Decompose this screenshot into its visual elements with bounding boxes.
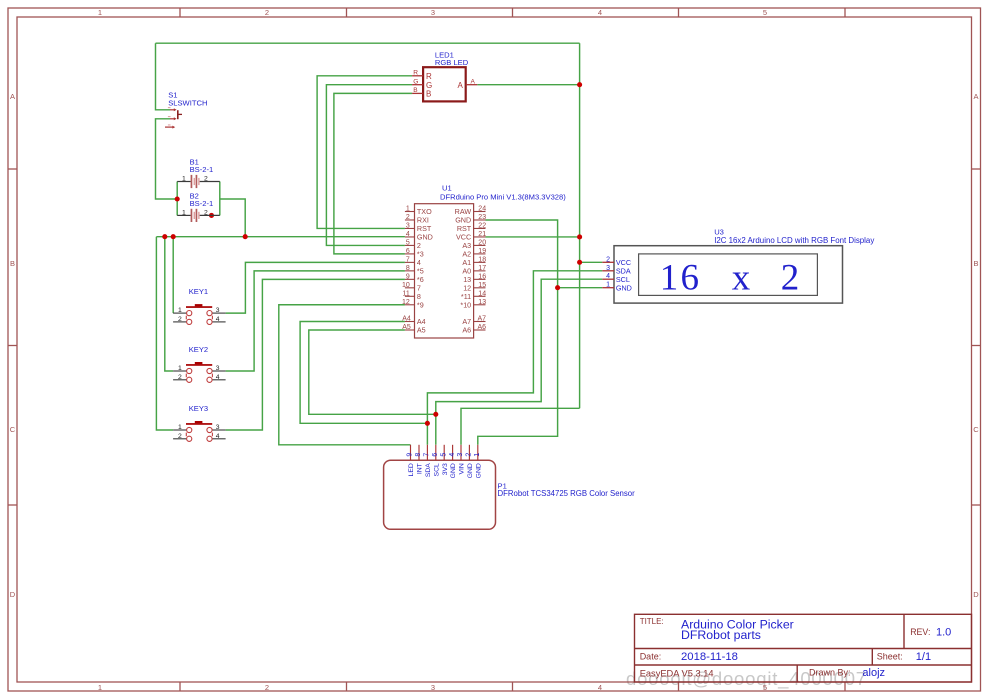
svg-text:21: 21 (478, 231, 486, 238)
wire LED R to U1 RST (317, 76, 412, 229)
battery B2 BS-2-1 (177, 191, 220, 222)
U1 pin 5 2 (405, 244, 415, 246)
LED1 RGB LED (412, 50, 477, 101)
svg-text:B: B (973, 259, 978, 268)
svg-text:9: 9 (406, 273, 410, 280)
svg-text:3: 3 (606, 265, 610, 272)
U1 pin 9 *6 (405, 278, 415, 280)
wire LED G to U1 pin5 (326, 85, 412, 246)
svg-text:A: A (457, 81, 463, 90)
LED1 pin G (412, 84, 423, 86)
svg-text:2: 2 (265, 683, 269, 692)
U1 pin 16 13 (474, 278, 486, 280)
P1 pin 5 3V3 (443, 445, 445, 460)
svg-text:A4: A4 (402, 316, 411, 323)
svg-text:6: 6 (406, 248, 410, 255)
svg-text:A5: A5 (402, 324, 411, 331)
sensor P1 DFRobot TCS34725 (384, 445, 636, 530)
svg-text:LED: LED (408, 463, 415, 476)
junction U1 VCC (577, 234, 582, 239)
junction LCD VCC (577, 260, 582, 265)
svg-text:*9: *9 (417, 300, 424, 309)
svg-text:3: 3 (216, 424, 220, 431)
svg-text:8: 8 (415, 453, 422, 457)
U1 pin 6 *3 (405, 253, 415, 255)
svg-text:2: 2 (178, 374, 182, 381)
pushbutton KEY2 (173, 345, 226, 383)
svg-text:1: 1 (182, 176, 186, 183)
svg-text:2: 2 (178, 433, 182, 440)
svg-text:INT: INT (417, 463, 424, 474)
junction bus battery (243, 234, 248, 239)
junction bus KEY2 (162, 234, 167, 239)
svg-text:B: B (10, 259, 15, 268)
svg-text:1: 1 (98, 683, 102, 692)
svg-text:D: D (973, 590, 979, 599)
P1 pin 1 GND (477, 445, 479, 460)
svg-text:3V3: 3V3 (442, 463, 449, 475)
pushbutton KEY3 (173, 404, 226, 442)
svg-text:4: 4 (406, 231, 410, 238)
svg-text:2: 2 (265, 8, 269, 17)
U1 pin 17 A0 (474, 270, 486, 272)
svg-text:6: 6 (432, 453, 439, 457)
wire KEY3 pin3 to U1 pin9 (226, 279, 405, 430)
svg-text:B: B (426, 90, 431, 99)
U1 pin 20 A3 (474, 244, 486, 246)
svg-text:BS-2-1: BS-2-1 (190, 165, 214, 174)
svg-text:4: 4 (216, 316, 220, 323)
wire S1 pin2 to battery (156, 119, 178, 199)
svg-text:SDA: SDA (425, 463, 432, 477)
LCD U3 I2C 16x2 (602, 228, 874, 304)
svg-text:A6: A6 (478, 324, 487, 331)
svg-text:4: 4 (598, 8, 602, 17)
svg-text:SCL: SCL (433, 463, 440, 476)
junction A4/SDA (425, 421, 430, 426)
wire battery to GND bus (220, 199, 245, 237)
svg-text:4: 4 (216, 433, 220, 440)
wire LED B to U1 pin6 (334, 93, 412, 254)
P1 pin 4 GND (452, 445, 454, 460)
junction LED A / VCC (577, 82, 582, 87)
U1 pin 10 7 (405, 287, 415, 289)
U1 pin 15 12 (474, 287, 486, 289)
svg-text:5: 5 (763, 683, 767, 692)
P1 pin 9 LED (410, 445, 412, 460)
wire U1 pin23 GND chain (478, 220, 558, 445)
U3 pin 1 GND (602, 287, 614, 289)
P1 pin 7 SDA (426, 445, 428, 460)
svg-text:2: 2 (204, 176, 208, 183)
U1 pin 18 A1 (474, 261, 486, 263)
wire bus drop to KEY1 (172, 237, 174, 313)
svg-text:GND: GND (450, 463, 457, 478)
svg-text:12: 12 (402, 299, 410, 306)
svg-text:20: 20 (478, 239, 486, 246)
svg-text:2018-11-18: 2018-11-18 (681, 651, 738, 663)
svg-text:14: 14 (478, 290, 486, 297)
svg-text:R: R (426, 72, 432, 81)
wire LCD SCL chain (436, 279, 603, 445)
svg-text:17: 17 (478, 265, 486, 272)
junction bus KEY1 (171, 234, 176, 239)
svg-text:KEY2: KEY2 (189, 345, 208, 354)
svg-text:R: R (413, 70, 418, 77)
svg-text:DFRobot parts: DFRobot parts (681, 628, 761, 642)
svg-text:4: 4 (606, 273, 610, 280)
svg-text:C: C (973, 425, 979, 434)
U1 pin 23 GND (474, 219, 486, 221)
svg-text:7: 7 (424, 453, 431, 457)
svg-text:5: 5 (763, 8, 767, 17)
LED1 pin R (412, 75, 423, 77)
svg-text:4: 4 (449, 453, 456, 457)
pushbutton KEY1 (173, 287, 226, 325)
svg-text:23: 23 (478, 214, 486, 221)
svg-text:1: 1 (606, 282, 610, 289)
wire KEY2 pin3 to U1 pin8 (226, 271, 405, 371)
svg-text:GND: GND (467, 463, 474, 478)
U1 pin 21 VCC (474, 236, 486, 238)
U1 pin A5/A6 (405, 329, 415, 331)
svg-text:8: 8 (406, 265, 410, 272)
U1 pin A4/A7 (405, 321, 415, 323)
wire battery left bar (176, 182, 178, 216)
wire U1 pin12 to sensor LED (279, 305, 411, 445)
svg-text:DFRobot TCS34725 RGB Color Sen: DFRobot TCS34725 RGB Color Sensor (498, 489, 636, 498)
wire battery right bar (219, 182, 221, 216)
svg-text:D: D (10, 590, 16, 599)
svg-text:TITLE:: TITLE: (640, 617, 664, 626)
wire U1 pin21 VCC (486, 236, 580, 238)
junction A5/SCL (433, 412, 438, 417)
U1 pin 2 RXI (405, 219, 415, 221)
svg-text:10: 10 (402, 282, 410, 289)
svg-text:2: 2 (204, 209, 208, 216)
U1 pin 7 4 (405, 261, 415, 263)
wire bus drop to KEY2 (165, 237, 173, 371)
svg-text:3: 3 (216, 365, 220, 372)
P1 pin 8 INT (418, 445, 420, 460)
svg-text:A: A (10, 92, 15, 101)
svg-text:11: 11 (403, 290, 410, 297)
svg-text:A7: A7 (478, 316, 487, 323)
U1 pin 4 GND (405, 236, 415, 238)
svg-text:16: 16 (478, 273, 486, 280)
svg-text:4: 4 (598, 683, 602, 692)
svg-text:DFRduino Pro Mini V1.3(8M3.3V3: DFRduino Pro Mini V1.3(8M3.3V328) (440, 192, 566, 201)
svg-text:SLSWITCH: SLSWITCH (168, 98, 207, 107)
switch S1 SLSWITCH (165, 91, 207, 129)
U1 pin 19 A2 (474, 253, 486, 255)
U1 pin 24 RAW (474, 211, 486, 213)
junction B2 pin2 (209, 213, 214, 218)
wire LCD VCC (580, 261, 603, 263)
junction battery left (175, 196, 180, 201)
wire bus drop to KEY3 (156, 237, 173, 430)
svg-text:U1: U1 (442, 184, 452, 193)
svg-text:3: 3 (431, 683, 435, 692)
svg-text:1: 1 (406, 206, 410, 213)
svg-text:4: 4 (216, 374, 220, 381)
svg-text:1: 1 (182, 209, 186, 216)
wire VCC vertical (579, 43, 581, 408)
svg-text:REV:: REV: (910, 627, 930, 637)
svg-text:*10: *10 (460, 300, 471, 309)
svg-text:Sheet:: Sheet: (877, 652, 903, 662)
U1 pin 22 RST (474, 227, 486, 229)
LED1 pin B (412, 92, 423, 94)
junction LCD GND (555, 285, 560, 290)
svg-text:3: 3 (406, 222, 410, 229)
wire LED A to VCC vertical (477, 84, 579, 86)
wire U1 A5 to SCL junction (309, 330, 436, 414)
wire LCD GND (558, 287, 603, 289)
svg-text:A: A (973, 92, 978, 101)
U1 pin 13 *10 (474, 304, 486, 306)
svg-text:RGB LED: RGB LED (435, 58, 469, 67)
svg-text:1.0: 1.0 (936, 627, 951, 639)
wire S1 pin1 to top bus (156, 43, 171, 110)
svg-text:5: 5 (440, 453, 447, 457)
U3 pin 4 SCL (602, 278, 614, 280)
LED1 pin A (466, 84, 478, 86)
svg-text:G: G (426, 81, 432, 90)
svg-text:A5: A5 (417, 326, 426, 335)
svg-text:EasyEDA V5.3.14: EasyEDA V5.3.14 (640, 669, 714, 679)
svg-text:1: 1 (98, 8, 102, 17)
svg-text:2: 2 (466, 453, 473, 457)
svg-text:Drawn By:: Drawn By: (809, 668, 851, 678)
svg-text:KEY3: KEY3 (189, 404, 208, 413)
wire top VCC bus (156, 42, 580, 44)
svg-text:15: 15 (478, 282, 486, 289)
U1 pin 11 8 (405, 295, 415, 297)
U3 pin 2 VCC (602, 261, 614, 263)
svg-text:3: 3 (457, 453, 464, 457)
title block (635, 614, 972, 682)
svg-text:1: 1 (178, 424, 182, 431)
battery B1 BS-2-1 (177, 157, 220, 188)
svg-text:A6: A6 (462, 326, 471, 335)
svg-text:2: 2 (178, 316, 182, 323)
svg-text:1/1: 1/1 (916, 651, 931, 663)
svg-text:9: 9 (407, 453, 414, 457)
svg-text:GND: GND (475, 463, 482, 478)
svg-text:13: 13 (478, 299, 486, 306)
svg-text:GND: GND (616, 283, 632, 292)
P1 pin 3 VIN (460, 445, 462, 460)
IC U1 DFRduino Pro Mini (402, 184, 566, 339)
svg-text:1: 1 (178, 365, 182, 372)
P1 pin 6 SCL (435, 445, 437, 460)
svg-text:alojz: alojz (862, 667, 885, 679)
svg-text:24: 24 (478, 206, 486, 213)
P1 pin 2 GND (468, 445, 470, 460)
U1 pin 12 *9 (405, 304, 415, 306)
U1 pin 3 RST (405, 227, 415, 229)
svg-text:2: 2 (406, 214, 410, 221)
svg-text:C: C (10, 425, 16, 434)
svg-text:Date:: Date: (640, 651, 662, 661)
U1 pin 14 *11 (474, 295, 486, 297)
svg-text:19: 19 (478, 248, 486, 255)
svg-text:7: 7 (406, 256, 410, 263)
svg-text:2: 2 (606, 256, 610, 263)
svg-text:5: 5 (406, 239, 410, 246)
svg-text:22: 22 (478, 222, 486, 229)
wire U1 A4 to SDA junction (300, 322, 427, 424)
U1 pin 1 TXO (405, 211, 415, 213)
svg-text:18: 18 (478, 256, 486, 263)
wire VCC to sensor VIN (461, 408, 580, 445)
svg-text:VIN: VIN (459, 463, 466, 474)
wire KEY1 pin3 to U1 pin7 (226, 262, 405, 313)
svg-text:G: G (413, 79, 418, 86)
U1 pin 8 *5 (405, 270, 415, 272)
svg-text:3: 3 (431, 8, 435, 17)
svg-text:BS-2-1: BS-2-1 (190, 199, 214, 208)
wire GND bus (156, 236, 405, 238)
svg-text:A: A (471, 79, 476, 86)
svg-text:3: 3 (216, 307, 220, 314)
svg-text:KEY1: KEY1 (189, 287, 208, 296)
svg-text:1: 1 (474, 453, 481, 457)
wire LCD SDA chain (427, 271, 602, 445)
svg-text:B: B (413, 87, 418, 94)
U3 pin 3 SDA (602, 270, 614, 272)
svg-text:I2C 16x2 Arduino LCD with RGB: I2C 16x2 Arduino LCD with RGB Font Displ… (714, 236, 874, 245)
svg-text:1: 1 (178, 307, 182, 314)
